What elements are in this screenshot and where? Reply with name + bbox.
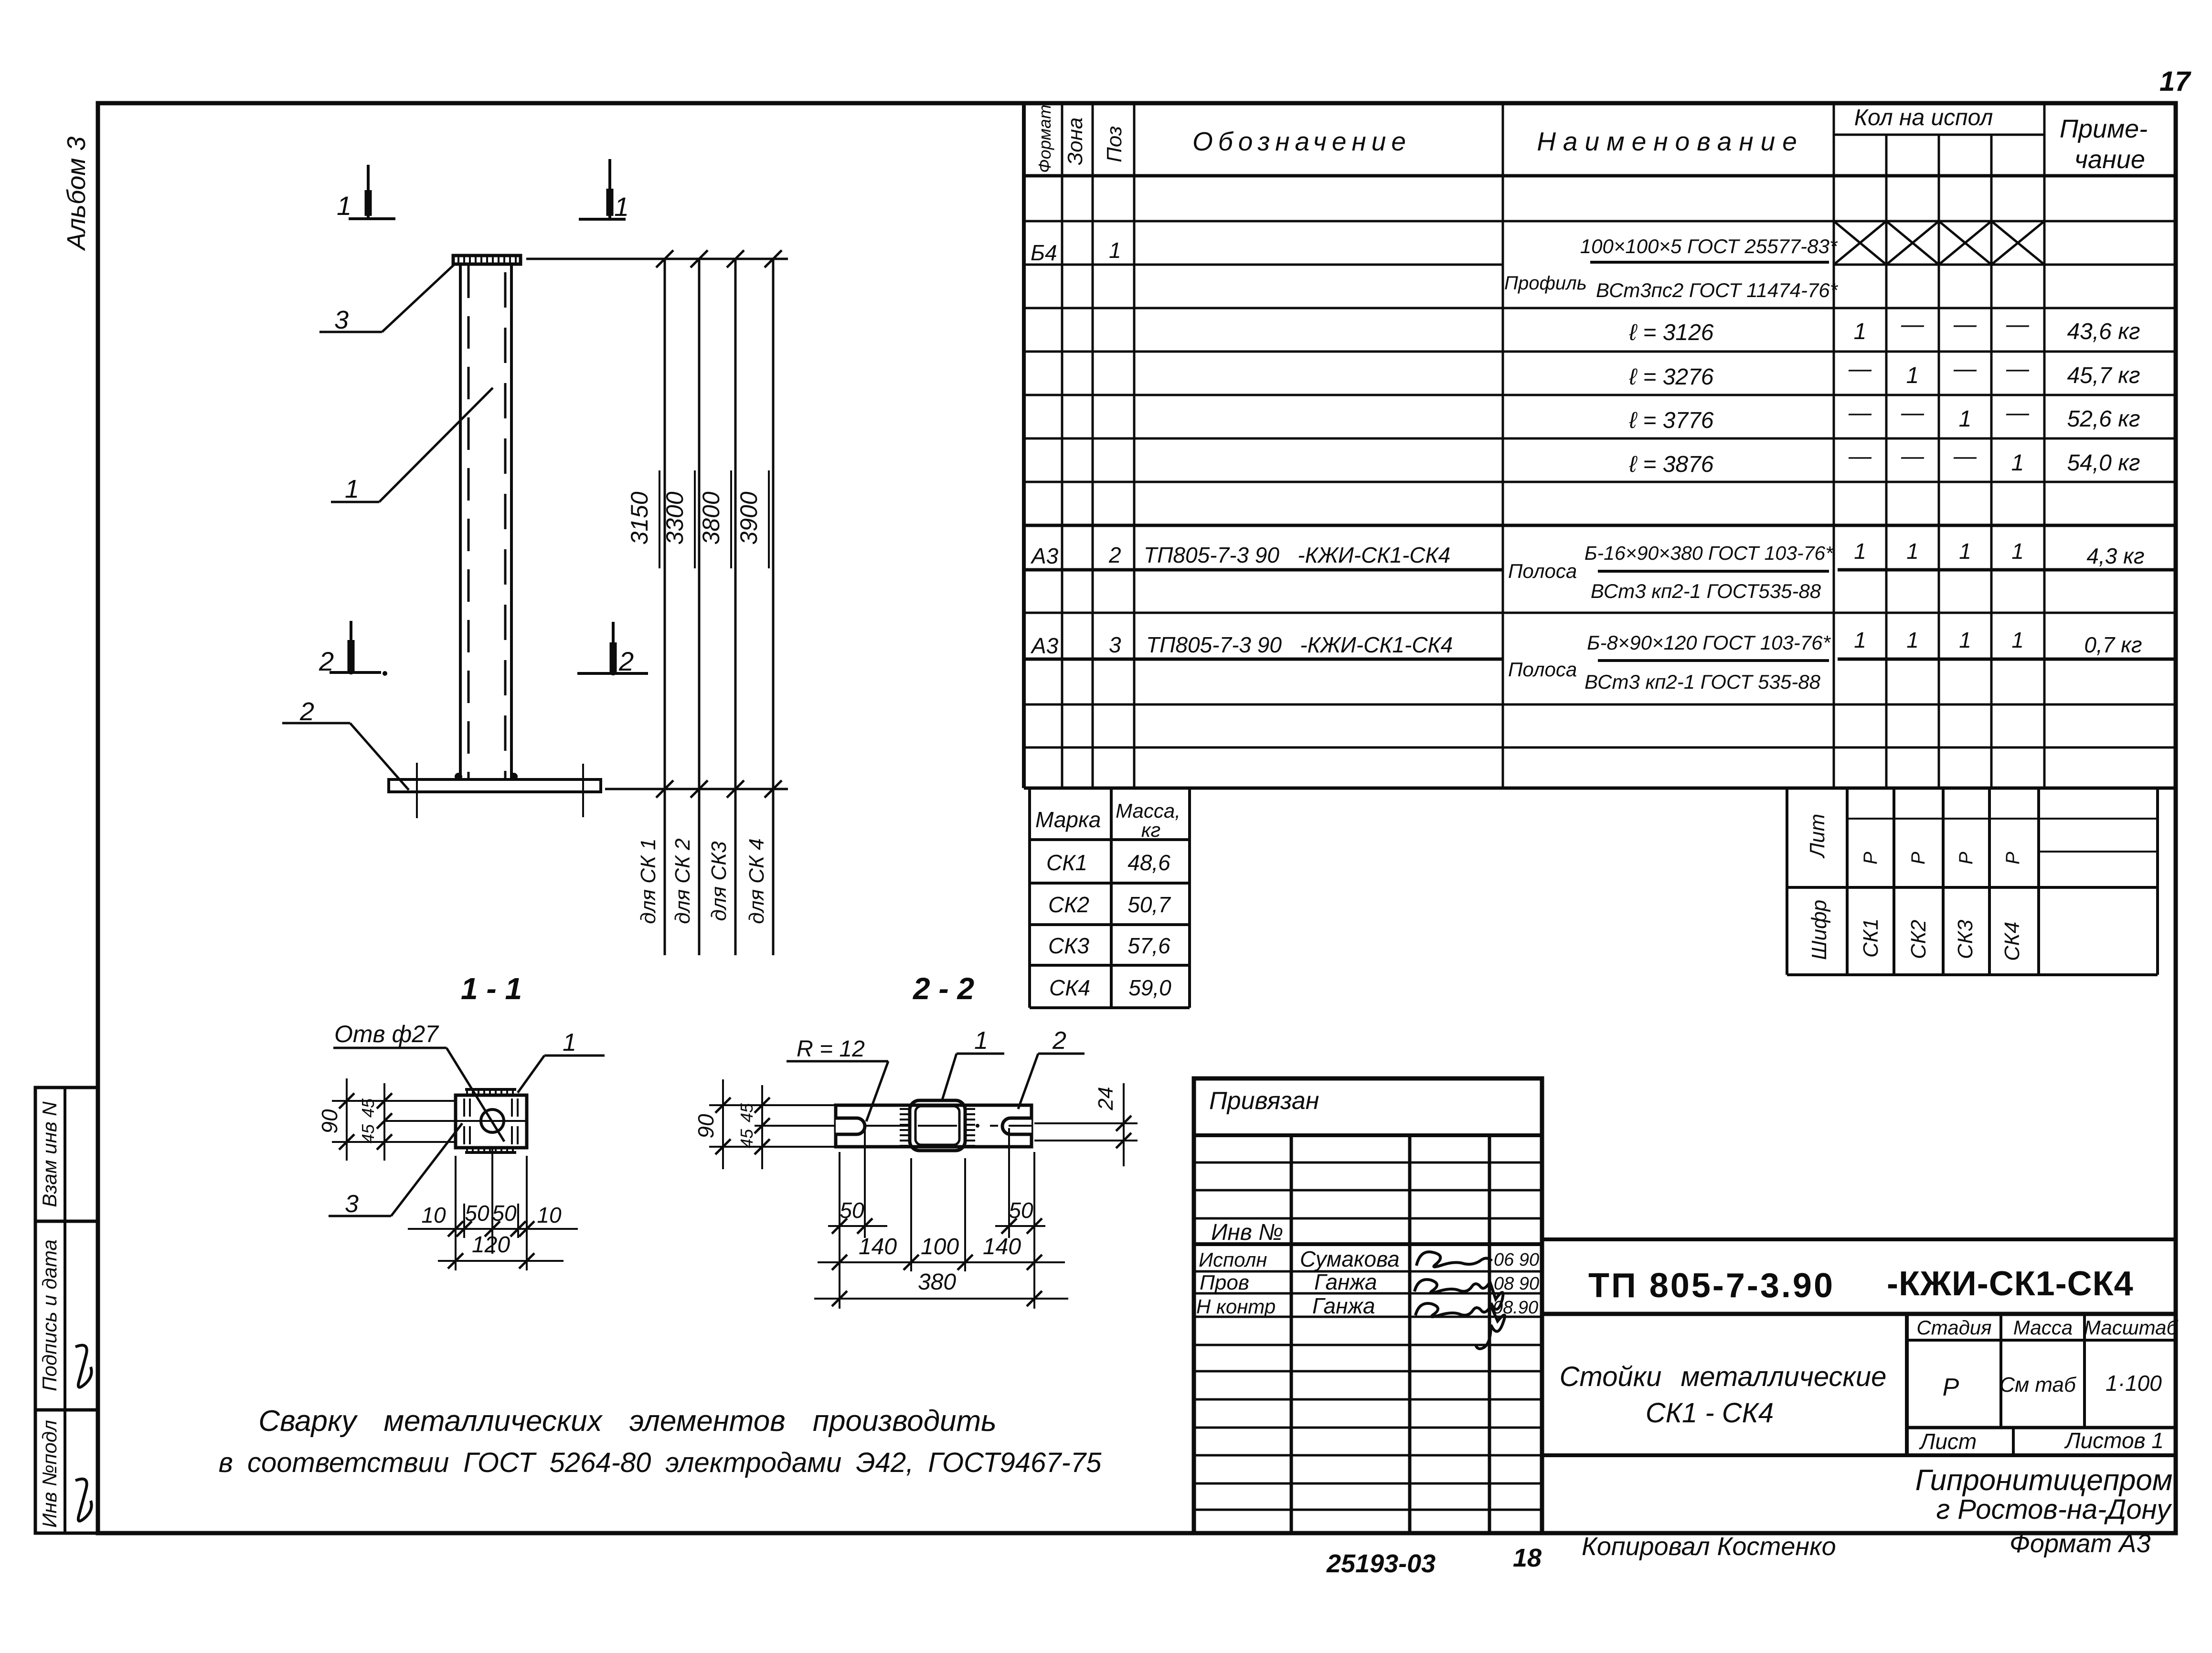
- svg-text:Р: Р: [1860, 852, 1881, 864]
- svg-text:-КЖИ-СК1-СК4: -КЖИ-СК1-СК4: [1887, 1265, 2134, 1303]
- svg-text:140: 140: [983, 1234, 1021, 1259]
- section 2-2: base plate strip with slots: [836, 1105, 1032, 1147]
- svg-text:90: 90: [317, 1109, 342, 1134]
- svg-text:ВСт3 кп2-1 ГОСТ 535-88: ВСт3 кп2-1 ГОСТ 535-88: [1585, 671, 1821, 693]
- svg-text:24: 24: [1094, 1087, 1117, 1111]
- dimension line 3300 (for SK2): [661, 250, 708, 955]
- callout 1 (section 1-1): [518, 1029, 605, 1093]
- left margin signature loops: [75, 1345, 92, 1521]
- svg-text:1: 1: [1854, 628, 1866, 652]
- callout R=12: [787, 1036, 888, 1121]
- svg-text:1: 1: [1906, 363, 1919, 388]
- section 1-1: hole circle: [481, 1109, 504, 1132]
- svg-text:СК2: СК2: [1048, 892, 1089, 917]
- svg-text:Пров: Пров: [1200, 1271, 1249, 1294]
- svg-text:—: —: [1848, 444, 1872, 469]
- svg-text:43,6 кг: 43,6 кг: [2067, 319, 2140, 344]
- column tube (pos 1), elevation: [460, 264, 511, 779]
- spec rows: lengths l=3126..3876: [1629, 312, 2140, 477]
- svg-text:1: 1: [337, 191, 351, 221]
- svg-text:Наименование: Наименование: [1537, 127, 1804, 156]
- svg-text:Взам инв N: Взам инв N: [38, 1101, 61, 1207]
- marka/massa table: [1030, 788, 1190, 1008]
- svg-text:Полоса: Полоса: [1508, 560, 1577, 582]
- callout 3 (section 1-1): [329, 1123, 462, 1218]
- svg-text:2: 2: [618, 646, 634, 676]
- bottom annotation row: [1326, 1529, 2150, 1578]
- svg-text:—: —: [2006, 400, 2030, 426]
- svg-text:1: 1: [1854, 539, 1866, 564]
- svg-text:1: 1: [1906, 628, 1919, 652]
- svg-text:Р: Р: [1908, 852, 1929, 864]
- section 2-2 bottom dimensions: [814, 1128, 1068, 1309]
- svg-text:100×100×5 ГОСТ 25577-83*: 100×100×5 ГОСТ 25577-83*: [1580, 235, 1838, 257]
- svg-text:0,7 кг: 0,7 кг: [2084, 632, 2142, 657]
- svg-text:Р: Р: [1956, 852, 1977, 864]
- section mark 1 (left): [337, 165, 395, 221]
- callout 2 (section 2-2): [1018, 1027, 1085, 1109]
- svg-text:3150: 3150: [626, 491, 653, 544]
- svg-text:4,3 кг: 4,3 кг: [2086, 544, 2144, 568]
- svg-text:Формат: Формат: [1035, 105, 1054, 173]
- svg-text:Профиль: Профиль: [1504, 273, 1587, 294]
- svg-text:45: 45: [737, 1103, 756, 1122]
- svg-text:10: 10: [537, 1203, 562, 1227]
- svg-text:06 90: 06 90: [1494, 1250, 1539, 1270]
- welding note text: [219, 1405, 1102, 1478]
- svg-text:Полоса: Полоса: [1508, 658, 1577, 681]
- svg-text:Поз: Поз: [1103, 126, 1126, 162]
- callout 3 with leader: [319, 265, 454, 334]
- svg-text:57,6: 57,6: [1127, 933, 1170, 958]
- dimension line 3150 (for SK1): [626, 250, 673, 955]
- title block: signature table texts: [1196, 1087, 1539, 1318]
- svg-text:1: 1: [1109, 238, 1121, 263]
- lit/shifr execution table: [1787, 788, 2158, 975]
- svg-text:СК1: СК1: [1859, 918, 1882, 958]
- page number 17: [2159, 66, 2191, 97]
- svg-text:Обозначение: Обозначение: [1192, 127, 1411, 156]
- svg-text:1·100: 1·100: [2106, 1371, 2162, 1396]
- svg-text:50: 50: [492, 1201, 517, 1226]
- svg-text:1: 1: [1959, 539, 1971, 564]
- svg-text:Масштаб: Масштаб: [2084, 1316, 2179, 1339]
- left margin rotated labels: [38, 1101, 61, 1528]
- svg-text:А3: А3: [1030, 544, 1059, 568]
- svg-text:СК4: СК4: [2000, 922, 2024, 961]
- svg-text:1: 1: [563, 1029, 576, 1056]
- title block: organization: [1915, 1464, 2173, 1525]
- crossed-out quantity cells: [1834, 221, 2044, 265]
- svg-text:Р: Р: [1943, 1374, 1959, 1401]
- section mark 2 (right): [577, 622, 648, 676]
- title block: signature table grid: [1194, 1078, 1542, 1533]
- svg-text:45: 45: [358, 1098, 378, 1118]
- svg-text:1: 1: [1906, 539, 1919, 564]
- svg-text:Б-8×90×120 ГОСТ 103-76*: Б-8×90×120 ГОСТ 103-76*: [1587, 631, 1831, 654]
- svg-text:50: 50: [465, 1201, 489, 1226]
- svg-text:Р: Р: [2002, 852, 2023, 864]
- section mark 1 (right): [579, 159, 629, 222]
- svg-text:СК1 - СК4: СК1 - СК4: [1646, 1397, 1774, 1429]
- svg-text:Ганжа: Ганжа: [1314, 1269, 1377, 1294]
- specification table grid: [1024, 103, 2176, 788]
- spec row: strip B-8x90x120 (pos 3): [1030, 628, 2142, 693]
- svg-text:СК1: СК1: [1046, 850, 1087, 875]
- svg-text:1: 1: [2011, 539, 2024, 564]
- svg-text:Гипронитицепром: Гипронитицепром: [1915, 1464, 2173, 1497]
- svg-text:3: 3: [1109, 632, 1121, 657]
- album label "Альбом 3" (rotated, left margin): [62, 137, 91, 251]
- svg-text:Отв ф27: Отв ф27: [334, 1021, 439, 1047]
- svg-text:ℓ = 3776: ℓ = 3776: [1629, 408, 1714, 433]
- svg-text:ТП 805-7-3.90: ТП 805-7-3.90: [1588, 1267, 1835, 1305]
- svg-text:1: 1: [345, 475, 359, 503]
- svg-text:3: 3: [345, 1190, 359, 1218]
- svg-text:1 - 1: 1 - 1: [461, 971, 522, 1006]
- svg-text:ТП805-7-3 90 -КЖИ-СК1-СК4: ТП805-7-3 90 -КЖИ-СК1-СК4: [1144, 543, 1450, 567]
- svg-text:ТП805-7-3 90 -КЖИ-СК1-СК4: ТП805-7-3 90 -КЖИ-СК1-СК4: [1146, 632, 1453, 657]
- svg-text:1: 1: [2011, 628, 2024, 652]
- svg-text:Привязан: Привязан: [1209, 1087, 1319, 1115]
- svg-text:Шифр: Шифр: [1808, 900, 1831, 960]
- svg-text:Подпись и дата: Подпись и дата: [38, 1239, 61, 1391]
- svg-text:—: —: [1953, 312, 1977, 337]
- svg-text:—: —: [1901, 400, 1925, 426]
- section 1-1 title: [461, 971, 522, 1006]
- svg-text:50: 50: [1009, 1198, 1033, 1223]
- svg-text:2: 2: [1108, 543, 1121, 567]
- svg-text:См таб: См таб: [1999, 1373, 2077, 1397]
- svg-text:—: —: [1953, 444, 1977, 469]
- svg-text:кг: кг: [1141, 819, 1161, 841]
- svg-text:ВСт3пс2 ГОСТ 11474-76*: ВСт3пс2 ГОСТ 11474-76*: [1596, 279, 1839, 301]
- svg-text:45: 45: [358, 1124, 378, 1143]
- bottom extension line: [605, 788, 788, 790]
- svg-text:3300: 3300: [661, 491, 688, 544]
- title block: subject name: [1560, 1361, 1887, 1429]
- svg-text:R = 12: R = 12: [797, 1036, 865, 1062]
- svg-text:—: —: [1848, 356, 1872, 382]
- svg-text:для СК 4: для СК 4: [745, 838, 768, 924]
- svg-text:52,6 кг: 52,6 кг: [2067, 406, 2140, 432]
- callout 1 with leader: [331, 388, 493, 503]
- svg-text:Стойки металлические: Стойки металлические: [1560, 1361, 1887, 1392]
- svg-text:45: 45: [737, 1129, 756, 1148]
- title block: stage/mass/scale grid: [1542, 1314, 2176, 1455]
- svg-text:100: 100: [921, 1234, 959, 1259]
- spec row: strip B-16x90x380 (pos 2): [1030, 539, 2145, 602]
- hole callout "Отв ф27": [333, 1021, 504, 1141]
- svg-text:Н контр: Н контр: [1196, 1295, 1276, 1318]
- section mark 2 (left): [319, 621, 387, 676]
- svg-text:для СК 1: для СК 1: [637, 838, 660, 924]
- svg-text:18: 18: [1513, 1544, 1542, 1572]
- svg-text:90: 90: [693, 1114, 718, 1139]
- svg-text:48,6: 48,6: [1127, 850, 1170, 875]
- svg-text:Сварку металлических элемент: Сварку металлических элементов производи…: [258, 1405, 996, 1438]
- svg-text:Стадия: Стадия: [1916, 1316, 1991, 1339]
- svg-text:СК3: СК3: [1048, 933, 1089, 958]
- section 2-2 right dimension 24: [1034, 1083, 1138, 1166]
- svg-text:Б4: Б4: [1031, 240, 1057, 265]
- svg-text:25193-03: 25193-03: [1326, 1549, 1436, 1578]
- svg-text:ℓ = 3276: ℓ = 3276: [1629, 364, 1714, 390]
- svg-text:—: —: [2006, 312, 2030, 337]
- svg-text:140: 140: [859, 1234, 897, 1259]
- svg-text:3900: 3900: [735, 491, 762, 544]
- section 2-2: tube square (pos 1): [900, 1100, 975, 1151]
- svg-text:2 - 2: 2 - 2: [913, 971, 974, 1006]
- callout 2 with leader: [282, 697, 409, 790]
- svg-text:2: 2: [1052, 1027, 1066, 1055]
- svg-text:Б-16×90×380 ГОСТ 103-76*: Б-16×90×380 ГОСТ 103-76*: [1585, 542, 1834, 564]
- svg-text:Альбом 3: Альбом 3: [62, 137, 91, 251]
- svg-text:1: 1: [614, 192, 629, 222]
- svg-text:СК3: СК3: [1954, 919, 1977, 959]
- title block: main designation band: [1542, 1239, 2176, 1314]
- svg-text:—: —: [1901, 312, 1925, 337]
- svg-text:Инв №подл: Инв №подл: [38, 1420, 61, 1528]
- svg-text:Лит: Лит: [1806, 814, 1829, 859]
- svg-text:1: 1: [1959, 628, 1971, 652]
- svg-text:Масса: Масса: [2013, 1316, 2073, 1339]
- svg-text:Лист: Лист: [1919, 1429, 1977, 1454]
- top plate (pos 3) with weld hatch: [453, 256, 521, 264]
- svg-text:Листов 1: Листов 1: [2064, 1428, 2164, 1453]
- callout 1 (section 2-2): [942, 1027, 1004, 1101]
- svg-text:ВСт3 кп2-1 ГОСТ535-88: ВСт3 кп2-1 ГОСТ535-88: [1591, 580, 1821, 602]
- dimension line 3800 (for SK3): [698, 250, 744, 955]
- svg-text:3800: 3800: [698, 491, 724, 544]
- svg-text:чание: чание: [2074, 145, 2145, 174]
- svg-text:1: 1: [1854, 319, 1867, 344]
- svg-text:для СК 2: для СК 2: [671, 838, 694, 924]
- svg-text:Сумакова: Сумакова: [1300, 1247, 1400, 1271]
- svg-text:Зона: Зона: [1063, 117, 1087, 165]
- base plate (pos 2): [389, 763, 601, 818]
- svg-text:1: 1: [2011, 450, 2024, 476]
- svg-text:—: —: [2006, 356, 2030, 382]
- svg-text:50,7: 50,7: [1127, 892, 1171, 917]
- svg-text:120: 120: [472, 1232, 510, 1258]
- svg-text:45,7 кг: 45,7 кг: [2067, 363, 2140, 388]
- section 2-2 center line: [783, 1124, 1032, 1128]
- spec table header texts: [1035, 105, 2148, 174]
- svg-text:1: 1: [974, 1027, 988, 1055]
- svg-text:г Ростов-на-Дону: г Ростов-на-Дону: [1936, 1494, 2172, 1525]
- svg-text:50: 50: [840, 1198, 864, 1223]
- svg-text:Приме-: Приме-: [2060, 115, 2148, 143]
- signature squiggles: [1414, 1252, 1505, 1349]
- svg-text:СК2: СК2: [1907, 920, 1930, 959]
- svg-text:1: 1: [1959, 406, 1972, 432]
- svg-text:Копировал Костенко: Копировал Костенко: [1582, 1532, 1836, 1561]
- svg-text:СК4: СК4: [1049, 975, 1090, 1000]
- svg-text:ℓ = 3876: ℓ = 3876: [1629, 452, 1714, 477]
- svg-text:для СК3: для СК3: [707, 841, 731, 921]
- svg-text:380: 380: [918, 1269, 956, 1295]
- section 2-2 title: [913, 971, 974, 1006]
- svg-text:Инв №: Инв №: [1211, 1220, 1283, 1245]
- spec row: profile 100x100x5 (pos 1): [1031, 235, 1839, 301]
- svg-text:2: 2: [319, 646, 334, 676]
- section 2-2 left dimensions 90 and 45/45: [693, 1079, 835, 1169]
- top extension line: [526, 258, 788, 260]
- svg-text:54,0 кг: 54,0 кг: [2067, 450, 2140, 476]
- svg-text:—: —: [1901, 444, 1925, 469]
- svg-text:Исполн: Исполн: [1199, 1248, 1267, 1271]
- section 1-1 bottom dimensions 10/50/50/10 and 120: [408, 1148, 578, 1270]
- svg-text:—: —: [1848, 400, 1872, 426]
- svg-text:А3: А3: [1030, 633, 1059, 658]
- section 1-1 left dimensions 90 and 45/45: [317, 1078, 527, 1161]
- svg-text:10: 10: [421, 1203, 446, 1227]
- dimension line 3900 (for SK4): [735, 250, 782, 955]
- rotated labels "для СК n": [637, 838, 768, 924]
- svg-text:ℓ = 3126: ℓ = 3126: [1629, 320, 1714, 345]
- svg-text:в соответствии ГОСТ 5264-80: в соответствии ГОСТ 5264-80 электродами …: [219, 1447, 1102, 1478]
- svg-text:3: 3: [334, 306, 349, 334]
- section 1-1: plate square with weld hatch: [456, 1089, 527, 1153]
- svg-text:Ганжа: Ганжа: [1312, 1293, 1375, 1318]
- left margin boxes: [35, 1088, 98, 1533]
- svg-text:08 90: 08 90: [1494, 1274, 1539, 1294]
- svg-text:59,0: 59,0: [1128, 975, 1171, 1000]
- svg-text:Формат А3: Формат А3: [2010, 1529, 2150, 1558]
- svg-text:—: —: [1953, 356, 1977, 382]
- svg-text:17: 17: [2159, 66, 2191, 97]
- svg-text:2: 2: [299, 697, 314, 726]
- svg-text:Кол на испол: Кол на испол: [1854, 105, 1993, 130]
- svg-text:Марка: Марка: [1035, 807, 1101, 832]
